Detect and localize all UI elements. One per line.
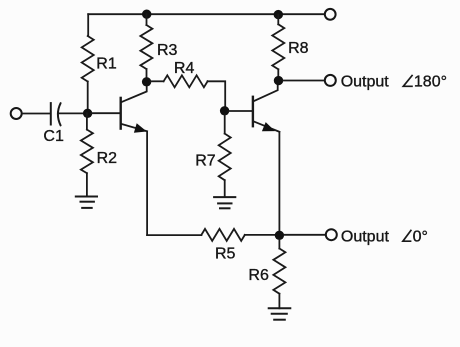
svg-text:R7: R7 (195, 153, 216, 170)
node G (Q2 emitter / R5 / R6 / output) (275, 231, 284, 240)
resistor R4 (164, 75, 208, 87)
transistor Q2 (253, 83, 280, 132)
node E (Q2 base / R4 / R7) (220, 106, 229, 115)
wire node G to R6 (278, 240, 280, 249)
ground (below R6) (269, 308, 291, 319)
svg-text:R5: R5 (215, 245, 236, 262)
wire node E to Q2 base (229, 110, 253, 112)
ground (below R2) (76, 197, 97, 208)
resistor R2 (81, 130, 93, 174)
node D (Q1 collector / R3 / R4) (142, 77, 151, 86)
wire bottom run to R5 (147, 234, 201, 236)
label angle symbol 180 (403, 75, 413, 86)
terminal input (11, 108, 22, 119)
node B (rail / R8) (274, 10, 283, 19)
svg-text:R2: R2 (97, 150, 118, 167)
wire C1 to input node (58, 112, 87, 114)
terminal supply (top right) (325, 9, 336, 20)
terminal output 0 (326, 229, 337, 240)
node F (Q2 collector / R8 / output) (274, 76, 283, 85)
svg-text:R3: R3 (157, 42, 178, 59)
wire R3 bottom to node D (146, 69, 148, 82)
resistor R8 (272, 24, 284, 69)
svg-text:R6: R6 (248, 267, 269, 284)
svg-text:R8: R8 (288, 40, 309, 57)
svg-text:R4: R4 (174, 60, 195, 77)
capacitor C1 (51, 103, 61, 125)
node A (rail / R3) (142, 10, 151, 19)
wire top-left corner down to R1 (87, 14, 89, 36)
node C (input node R1/R2/base Q1) (83, 109, 92, 118)
svg-text:Output: Output (341, 74, 390, 91)
svg-text:R1: R1 (96, 56, 117, 73)
svg-text:180°: 180° (414, 74, 447, 91)
wire Q1 emitter down (146, 132, 148, 236)
wire input terminal to C1 (22, 113, 50, 115)
wire node B to R8 (277, 15, 279, 25)
wire node G to output terminal (284, 234, 326, 236)
wire R4 right then down to node E (208, 81, 226, 106)
resistor R1 (82, 36, 94, 82)
svg-text:C1: C1 (43, 128, 64, 145)
svg-text:0°: 0° (413, 229, 428, 246)
wire R7 to ground (224, 180, 226, 197)
wire node D to R4 (151, 80, 164, 82)
terminal output 180 (325, 75, 336, 86)
resistor R6 (273, 249, 285, 294)
resistor R5 (201, 229, 244, 241)
wire Q2 emitter down to node G (278, 132, 280, 232)
wire node C to Q1 base (91, 112, 120, 114)
wire node C to R2 (86, 113, 88, 129)
wire R5 to node G (245, 234, 275, 236)
wire node A to R3 (146, 14, 148, 25)
label angle symbol 0 (403, 230, 412, 241)
resistor R3 (140, 25, 152, 69)
wire R6 to ground (278, 294, 280, 309)
wire R8 bottom to node F (277, 69, 279, 80)
wire node E to R7 (224, 115, 226, 134)
resistor R7 (219, 134, 231, 181)
wire node F to output terminal (283, 80, 325, 82)
ground (below R7) (214, 197, 235, 208)
wire top supply rail (88, 13, 324, 15)
svg-text:Output: Output (341, 229, 390, 246)
transistor Q1 (121, 84, 147, 133)
wire R2 to ground (86, 173, 88, 196)
wire R1 bottom to input node (87, 82, 89, 114)
